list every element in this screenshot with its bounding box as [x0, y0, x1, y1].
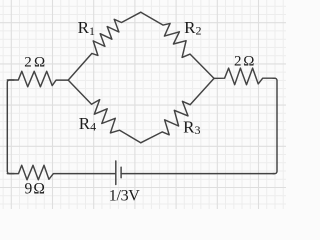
- resistor R3: [141, 78, 214, 142]
- svg-text:2Ω: 2Ω: [234, 54, 255, 70]
- node S bottom bridge junction: [140, 142, 141, 143]
- resistor 2ohm right: [214, 68, 275, 85]
- resistor R1: [68, 12, 141, 80]
- resistor R2: [141, 12, 214, 78]
- wire right vertical: [273, 78, 277, 173]
- resistor 9ohm: [7, 165, 115, 180]
- node E right bridge junction: [213, 78, 214, 79]
- wire bottom right segment battery to corner: [121, 173, 274, 175]
- resistor 2ohm left: [7, 71, 68, 87]
- svg-text:1/3V: 1/3V: [109, 188, 140, 205]
- battery V1 long plate: [115, 161, 117, 185]
- svg-text:9Ω: 9Ω: [24, 180, 45, 197]
- resistor R4: [68, 80, 141, 143]
- node W left bridge junction: [68, 79, 69, 80]
- wire left vertical: [7, 80, 14, 174]
- svg-text:2Ω: 2Ω: [24, 55, 45, 71]
- node N top bridge junction: [140, 12, 141, 13]
- battery V1 short plate: [120, 167, 122, 178]
